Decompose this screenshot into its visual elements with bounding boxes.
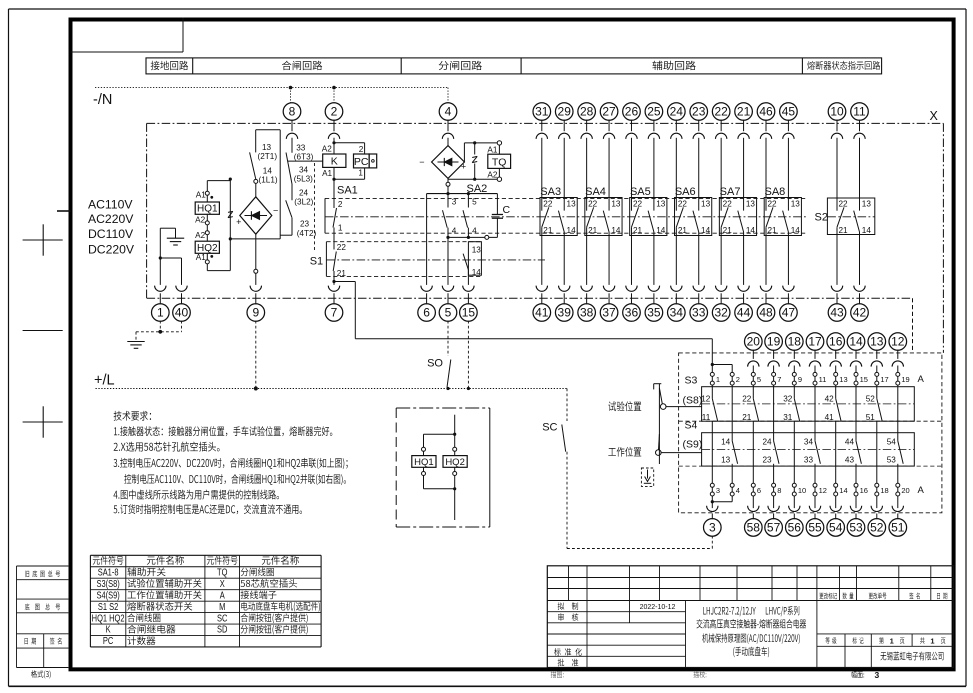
svg-text:9: 9 — [252, 306, 259, 320]
svg-text:K: K — [106, 624, 111, 635]
svg-text:14: 14 — [839, 486, 847, 495]
svg-text:15: 15 — [860, 375, 868, 384]
svg-text:17: 17 — [880, 375, 888, 384]
svg-text:4: 4 — [736, 486, 740, 495]
svg-text:5: 5 — [757, 375, 761, 384]
svg-text:22: 22 — [633, 199, 643, 208]
svg-text:22: 22 — [714, 105, 728, 119]
svg-text:6: 6 — [757, 486, 761, 495]
svg-text:HQ1 HQ2: HQ1 HQ2 — [92, 612, 125, 623]
svg-text:14: 14 — [721, 437, 731, 446]
svg-text:33: 33 — [692, 306, 706, 320]
svg-text:22: 22 — [742, 395, 752, 404]
svg-text:13: 13 — [611, 199, 621, 208]
svg-text:13: 13 — [567, 199, 577, 208]
svg-text:20: 20 — [901, 486, 909, 495]
svg-text:44: 44 — [737, 306, 751, 320]
svg-text:46: 46 — [759, 105, 773, 119]
svg-text:26: 26 — [625, 105, 639, 119]
svg-text:(5L3): (5L3) — [294, 174, 313, 183]
svg-text:A1: A1 — [322, 169, 332, 178]
svg-text:13: 13 — [791, 199, 801, 208]
svg-text:SA1: SA1 — [337, 185, 358, 197]
svg-text:A2: A2 — [195, 215, 205, 224]
svg-text:5: 5 — [472, 198, 477, 207]
svg-text:SO: SO — [427, 358, 443, 370]
svg-text:S4: S4 — [685, 420, 698, 432]
svg-text:15: 15 — [462, 306, 476, 320]
svg-text:3: 3 — [452, 198, 457, 207]
svg-text:9: 9 — [798, 375, 802, 384]
svg-text:3: 3 — [709, 521, 716, 535]
svg-text:58: 58 — [747, 521, 761, 535]
svg-text:SC: SC — [217, 612, 228, 623]
svg-text:(2T1): (2T1) — [258, 152, 278, 161]
svg-text:TQ: TQ — [492, 156, 507, 168]
svg-text:13: 13 — [862, 199, 872, 208]
svg-text:7: 7 — [777, 375, 781, 384]
svg-text:1: 1 — [358, 169, 363, 178]
svg-text:2: 2 — [338, 200, 343, 209]
svg-text:14: 14 — [791, 226, 801, 235]
svg-text:7: 7 — [331, 306, 338, 320]
svg-text:16: 16 — [829, 335, 843, 349]
svg-text:1: 1 — [716, 375, 720, 384]
svg-text:A: A — [918, 485, 925, 496]
svg-text:36: 36 — [625, 306, 639, 320]
svg-text:1: 1 — [157, 306, 164, 320]
svg-text:X: X — [930, 109, 939, 123]
svg-text:21: 21 — [543, 226, 553, 235]
svg-text:5: 5 — [445, 306, 452, 320]
svg-text:38: 38 — [580, 306, 594, 320]
svg-text:20: 20 — [747, 335, 761, 349]
svg-text:37: 37 — [602, 306, 616, 320]
svg-text:32: 32 — [714, 306, 728, 320]
svg-text:41: 41 — [535, 306, 549, 320]
svg-text:+/L: +/L — [94, 373, 115, 389]
svg-text:SA1-8: SA1-8 — [98, 566, 119, 577]
svg-text:2: 2 — [736, 375, 740, 384]
svg-text:52: 52 — [870, 521, 884, 535]
svg-text:53: 53 — [887, 456, 897, 465]
svg-text:42: 42 — [825, 395, 835, 404]
svg-text:24: 24 — [762, 437, 772, 446]
svg-text:52: 52 — [866, 395, 876, 404]
svg-text:42: 42 — [853, 306, 867, 320]
svg-text:SA6: SA6 — [675, 186, 696, 198]
svg-text:14: 14 — [849, 335, 863, 349]
svg-text:S4(S9): S4(S9) — [96, 589, 119, 600]
svg-text:C: C — [503, 204, 511, 216]
svg-text:12: 12 — [819, 486, 827, 495]
svg-text:A1: A1 — [487, 145, 497, 154]
svg-text:22: 22 — [839, 199, 849, 208]
svg-text:(6T3): (6T3) — [294, 153, 314, 162]
svg-text:SC: SC — [542, 422, 557, 434]
svg-text:14: 14 — [263, 167, 273, 176]
svg-text:S3: S3 — [685, 375, 698, 387]
svg-text:HQ1: HQ1 — [197, 204, 218, 215]
svg-text:SD: SD — [217, 624, 227, 635]
svg-text:SA4: SA4 — [585, 186, 606, 198]
svg-text:13: 13 — [262, 143, 272, 152]
svg-text:−: − — [419, 157, 424, 167]
svg-text:-/N: -/N — [93, 92, 112, 108]
svg-text:2: 2 — [331, 105, 338, 119]
svg-text:SA3: SA3 — [540, 186, 561, 198]
svg-text:8: 8 — [289, 105, 296, 119]
svg-text:S2: S2 — [815, 212, 828, 224]
svg-text:11: 11 — [853, 105, 866, 119]
svg-text:32: 32 — [783, 395, 793, 404]
svg-text:HQ1: HQ1 — [414, 457, 434, 468]
svg-text:DC220V: DC220V — [88, 243, 135, 257]
svg-text:−: − — [273, 206, 278, 216]
svg-text:1: 1 — [338, 224, 343, 233]
svg-text:23: 23 — [692, 105, 706, 119]
svg-text:14: 14 — [611, 226, 621, 235]
svg-text:21: 21 — [839, 226, 849, 235]
svg-text:43: 43 — [830, 306, 844, 320]
svg-text:40: 40 — [175, 306, 189, 320]
svg-text:S1: S1 — [310, 256, 323, 268]
svg-text:SA7: SA7 — [720, 186, 741, 198]
svg-text:11: 11 — [702, 413, 711, 422]
svg-text:54: 54 — [887, 437, 897, 446]
svg-text:31: 31 — [535, 105, 549, 119]
svg-text:21: 21 — [678, 226, 688, 235]
svg-text:4: 4 — [445, 105, 452, 119]
svg-text:(S8): (S8) — [683, 395, 703, 407]
svg-text:1: 1 — [930, 636, 934, 645]
svg-text:14: 14 — [701, 226, 711, 235]
svg-text:A1: A1 — [196, 253, 206, 262]
svg-text:14: 14 — [746, 226, 756, 235]
svg-text:22: 22 — [723, 199, 733, 208]
svg-text:21: 21 — [768, 226, 778, 235]
svg-text:34: 34 — [670, 306, 684, 320]
svg-text:13: 13 — [472, 246, 482, 255]
svg-text:DC110V: DC110V — [88, 227, 134, 241]
svg-text:39: 39 — [558, 306, 572, 320]
svg-text:+: + — [461, 162, 466, 172]
svg-text:17: 17 — [808, 335, 822, 349]
svg-text:A2: A2 — [322, 145, 332, 154]
svg-text:21: 21 — [723, 226, 733, 235]
svg-text:28: 28 — [580, 105, 594, 119]
svg-text:AC110V: AC110V — [88, 198, 133, 212]
svg-text:34: 34 — [299, 166, 309, 175]
svg-text:13: 13 — [746, 199, 756, 208]
svg-text:41: 41 — [825, 413, 835, 422]
svg-text:12: 12 — [891, 335, 905, 349]
svg-text:22: 22 — [588, 199, 598, 208]
svg-text:22: 22 — [543, 199, 553, 208]
svg-text:HQ2: HQ2 — [445, 457, 465, 468]
svg-text:(4T2): (4T2) — [297, 229, 317, 238]
svg-text:12: 12 — [701, 395, 711, 404]
svg-text:33: 33 — [296, 144, 306, 153]
svg-text:54: 54 — [829, 521, 843, 535]
svg-text:43: 43 — [845, 456, 855, 465]
svg-text:22: 22 — [768, 199, 778, 208]
svg-text:19: 19 — [901, 375, 909, 384]
svg-text:13: 13 — [839, 375, 847, 384]
svg-text:X: X — [220, 578, 225, 589]
svg-text:22: 22 — [337, 243, 347, 252]
svg-text:S1 S2: S1 S2 — [98, 601, 118, 612]
svg-text:8: 8 — [777, 486, 781, 495]
svg-text:13: 13 — [721, 456, 731, 465]
svg-text:(1L1): (1L1) — [259, 176, 278, 185]
svg-text:53: 53 — [849, 521, 863, 535]
svg-text:PC: PC — [354, 156, 369, 168]
svg-text:35: 35 — [647, 306, 661, 320]
svg-text:48: 48 — [759, 306, 773, 320]
svg-text:2022-10-12: 2022-10-12 — [640, 604, 676, 611]
svg-text:51: 51 — [891, 521, 905, 535]
svg-text:4: 4 — [452, 227, 457, 236]
svg-text:14: 14 — [862, 226, 872, 235]
svg-text:25: 25 — [647, 105, 661, 119]
svg-text:10: 10 — [798, 486, 806, 495]
svg-text:22: 22 — [678, 199, 688, 208]
svg-text:21: 21 — [742, 413, 752, 422]
svg-text:14: 14 — [656, 226, 666, 235]
svg-text:51: 51 — [866, 413, 876, 422]
svg-text:A2: A2 — [487, 171, 497, 180]
svg-text:18: 18 — [880, 486, 888, 495]
svg-text:14: 14 — [567, 226, 577, 235]
svg-text:16: 16 — [860, 486, 868, 495]
svg-text:3: 3 — [716, 486, 720, 495]
svg-text:(S9): (S9) — [683, 439, 703, 451]
svg-text:23: 23 — [300, 220, 310, 229]
svg-text:45: 45 — [782, 105, 796, 119]
svg-text:14: 14 — [472, 268, 482, 277]
svg-text:13: 13 — [656, 199, 666, 208]
svg-text:2: 2 — [359, 145, 364, 154]
svg-text:A2: A2 — [195, 231, 205, 240]
svg-text:S3(S8): S3(S8) — [96, 578, 119, 589]
svg-text:21: 21 — [737, 105, 751, 119]
svg-text:AC220V: AC220V — [88, 212, 134, 226]
svg-text:19: 19 — [767, 335, 781, 349]
svg-text:57: 57 — [767, 521, 781, 535]
svg-text:11: 11 — [819, 375, 827, 384]
svg-text:A1: A1 — [196, 191, 206, 200]
svg-text:3: 3 — [875, 670, 880, 680]
svg-text:47: 47 — [782, 306, 796, 320]
svg-text:PC: PC — [103, 635, 114, 646]
svg-text:44: 44 — [845, 437, 855, 446]
svg-text:+: + — [236, 217, 241, 227]
svg-text:56: 56 — [788, 521, 802, 535]
svg-text:(3L2): (3L2) — [294, 197, 313, 206]
svg-text:55: 55 — [808, 521, 822, 535]
svg-text:A: A — [918, 374, 925, 385]
svg-text:34: 34 — [804, 437, 814, 446]
svg-text:21: 21 — [588, 226, 598, 235]
svg-text:27: 27 — [602, 105, 616, 119]
svg-text:A: A — [220, 589, 225, 600]
svg-text:13: 13 — [870, 335, 884, 349]
svg-text:18: 18 — [788, 335, 802, 349]
svg-text:29: 29 — [558, 105, 572, 119]
svg-text:SA8: SA8 — [765, 186, 786, 198]
svg-text:33: 33 — [804, 456, 814, 465]
svg-text:21: 21 — [633, 226, 643, 235]
svg-text:10: 10 — [830, 105, 844, 119]
svg-text:4: 4 — [472, 227, 477, 236]
svg-text:K: K — [331, 156, 338, 168]
svg-text:24: 24 — [299, 189, 309, 198]
svg-text:23: 23 — [762, 456, 772, 465]
svg-text:TQ: TQ — [217, 566, 228, 577]
svg-text:31: 31 — [783, 413, 793, 422]
svg-text:24: 24 — [670, 105, 684, 119]
svg-text:13: 13 — [701, 199, 711, 208]
svg-text:6: 6 — [423, 306, 430, 320]
svg-text:1: 1 — [890, 636, 894, 645]
svg-text:M: M — [219, 601, 225, 612]
svg-text:SA5: SA5 — [630, 186, 651, 198]
